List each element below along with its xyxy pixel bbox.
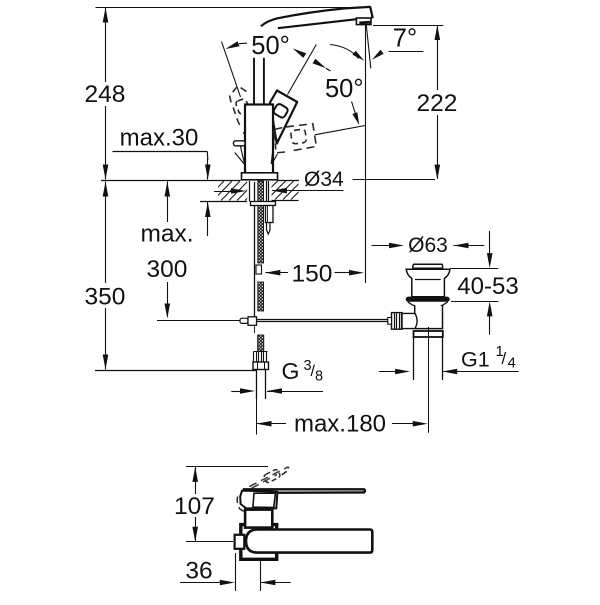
dim dia63 left arrow [389,243,404,249]
dimension max.300 line lower [167,282,169,317]
dimension 350 arrow bottom [103,355,109,370]
dimension 350 line lower [105,308,107,370]
svg-text:8: 8 [315,369,323,385]
handle dashed left inner [235,98,250,114]
deck bottom line left [200,201,247,203]
dim max180 left arrow [257,421,272,427]
deck hatching [205,181,264,201]
drain o-ring [406,297,450,302]
svg-text:G1: G1 [461,347,490,371]
dim 4053 top ext [450,268,498,270]
threaded hose upper [258,181,264,263]
plan dim 36 line [180,582,221,584]
dim 4053 bottom ext [451,301,498,303]
rod to drain lower [257,321,392,323]
drain body upper taper [408,302,448,306]
dimension 248 arrow top [103,8,109,23]
body flank line right a [271,138,274,164]
dimension max.30 arrow top [205,165,211,180]
plan dashed lever inner [263,469,281,484]
svg-text:G: G [282,358,300,384]
drain flange inner line [415,279,441,281]
dim max180 right line [392,423,413,425]
svg-text:max.: max. [140,221,193,248]
svg-text:40-53: 40-53 [457,273,518,300]
svg-text:350: 350 [85,283,126,310]
svg-text:7°: 7° [393,25,417,53]
dim dia34 right arrow [272,188,287,194]
handle lever solid [270,91,297,144]
dimension max.30 leader line [113,151,208,153]
plan spout bar [246,530,372,553]
plan dashed lever line1 [249,467,288,487]
plan body top [245,510,272,528]
dimension max.30 line lower [207,202,209,236]
dimension max.300 arrow top [165,182,171,197]
body flank line left b [235,153,244,165]
plan dim 107 top ext [186,466,268,468]
svg-text:248: 248 [85,81,126,108]
shank right lines [266,181,268,202]
handle lever hole [273,103,289,119]
clamp tail [267,223,271,235]
svg-text:4: 4 [508,355,516,372]
drain locknut band [414,331,443,337]
rod reference line [157,320,240,322]
spout bottom edge [278,19,357,28]
dim 150 right arrow [349,270,364,276]
body left protrusion [234,141,246,146]
label 50deg mid arc [330,45,359,59]
plan dim 107 arrow bottom [192,527,198,542]
dim G114 right line [442,371,518,373]
riser left line [253,58,255,105]
clamp block [266,206,274,223]
spout outlet vertical line [365,25,367,283]
angle arrow tail on L2 [326,68,331,71]
svg-text:300: 300 [147,256,188,283]
body flank line left a [240,146,244,164]
plan lever bar [243,489,365,493]
plan dashed lever line2 [252,475,277,489]
hex nut [253,362,269,370]
handle dashed right outer [274,124,316,153]
dim max180 left line [257,423,287,425]
riser right line [263,58,265,105]
svg-text:max.30: max.30 [120,124,199,151]
dimension max.30 leader corner [206,152,209,161]
dimension 248 line lower [105,106,107,180]
label 50deg mid leader arrow [352,112,359,125]
svg-text:Ø34: Ø34 [304,168,344,191]
label 7deg arrow [372,50,384,60]
plan dim 36 arrow right [260,580,275,586]
svg-text:222: 222 [417,90,458,117]
svg-text:Ø63: Ø63 [408,234,448,257]
svg-text:150: 150 [292,261,333,288]
dim 4053 bottom arrow [487,301,493,316]
drain knob collar [388,318,392,325]
dim G38 right line [267,391,323,393]
plan dim 36 arrow left [220,580,235,586]
angle line L2 [288,45,317,95]
dimension 350 bottom extension line [95,370,256,372]
threaded hose mid [258,282,264,311]
threaded hose lower [258,335,264,351]
dim G38 left arrow [240,388,255,394]
plan small square [235,535,245,549]
svg-text:50°: 50° [251,32,290,60]
drain body [415,305,443,328]
label 50deg left arrow [226,41,240,49]
dim dia63 left line [372,245,390,247]
dim dia34 left arrow [231,188,246,194]
drain flange [406,269,450,297]
deck bottom line right [272,200,299,202]
dim dia34 left line [214,191,232,193]
mounting washer [251,202,276,206]
svg-text:/: / [502,349,507,368]
supply centerline [256,399,258,435]
plan bracket [241,525,277,560]
dim 150 left line [265,272,288,274]
angle arrows on L2 upper [293,48,306,58]
dim G38 right arrow [267,388,282,394]
dim 150 left arrow [265,270,280,276]
pop-up rod vertical [254,182,256,317]
deck top line [101,180,241,182]
plan dim 107 arrow top [192,467,198,482]
dim 222 arrow bottom [435,165,441,180]
dimension max.300 arrow bottom [165,304,171,319]
dim G114 right arrow [442,369,457,375]
dim 150 right line [335,272,351,274]
plan dim 36 line right [260,582,290,584]
plan dim 107 line upper [195,467,197,494]
dim dia63 right arrow [454,243,469,249]
dimension 248 arrow bottom [103,165,109,180]
label 50deg mid leader [352,102,357,118]
dim 4053 top stem [489,231,491,253]
dim G114 left arrow [395,369,410,375]
dimension 350 arrow top [103,182,109,197]
rod connector centerline [254,326,256,334]
G38 pipe [256,370,258,400]
handle dashed right inner [291,129,307,144]
drain port [402,313,417,328]
deck top line right [278,180,299,182]
plan dashed motion arc [237,497,244,512]
svg-text:50°: 50° [325,75,364,103]
drain knob [392,313,403,330]
dim 4053 top arrow [487,253,493,268]
dim dia63 right line [454,245,485,247]
hose fitting small [256,265,262,274]
dimension max.300 line upper [167,182,169,223]
svg-text:max.180: max.180 [294,410,386,437]
dim 4053 bottom stem [489,316,491,335]
dim 222 line lower [437,115,439,179]
angle arrows on L2 lower [313,59,326,69]
handle dashed left outer [230,86,247,136]
drain cap [413,264,443,268]
label 50deg left arrow tail [239,42,247,45]
label 7deg leader line [389,51,424,53]
shank left line [249,181,251,202]
aerator on spout tip [356,18,371,25]
plan dashed lever tip [282,467,289,475]
plan ext line left [235,553,237,591]
plan lever cube hole [253,493,276,507]
dim G38 left line [231,391,241,393]
body flank line right b [272,154,278,164]
plan ext line right [260,561,262,591]
dimension max.30 line upper [207,158,209,180]
deck top line right2 [353,179,436,181]
rod end cap [240,318,248,323]
spout top edge [261,7,373,26]
dimension max.30 arrow bottom [205,202,211,217]
rod connector block [248,317,257,326]
angle line L1 [222,42,241,98]
dim 222 top ext [373,25,443,27]
dim max180 right arrow [413,421,428,427]
faucet body [245,105,273,175]
braided section [254,352,268,362]
angle line L3 [315,126,365,135]
plan lever cube [240,491,277,509]
drain tailpipe [413,337,415,380]
dim G114 left line [379,371,396,373]
label 50deg mid arc arrow [353,51,365,61]
base plate [242,173,278,180]
plan dim 107 bottom ext [186,541,233,543]
rod to drain upper [257,319,392,321]
spray direction 7deg line [366,25,371,68]
plan dim 107 line lower [195,517,197,542]
dim 222 arrow top [435,25,441,40]
dim dia34 right line [272,190,344,192]
extension line top of spout [96,7,349,9]
drain centerline [428,327,430,433]
svg-text:36: 36 [185,557,212,584]
dim 222 line upper [437,25,439,90]
svg-text:107: 107 [174,493,215,520]
dimension 248 line upper [105,8,107,83]
dimension 350 line upper [105,182,107,284]
